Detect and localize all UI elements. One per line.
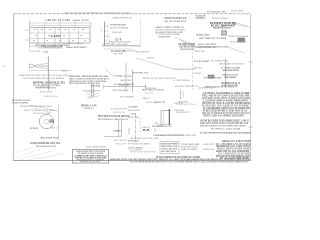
svg-text:A-1407: A-1407 <box>51 35 62 38</box>
J heavy edge <box>168 109 170 125</box>
F vertical centerline <box>225 59 227 88</box>
svg-text:6S YI78NF PZ03: 6S YI78NF PZ03 <box>211 61 229 63</box>
J base lines <box>157 124 172 126</box>
svg-text:UBIC2 6AE08 3PGOJ 8G4 .C: UBIC2 6AE08 3PGOJ 8G4 .C <box>219 63 245 66</box>
L table box <box>160 142 179 154</box>
fig A cell marks <box>33 30 86 41</box>
svg-text:.D54J P6K9A V4-: .D54J P6K9A V4- <box>112 89 130 92</box>
fig C base lines <box>102 45 141 47</box>
leader lines D <box>175 38 192 45</box>
fig A dimension lines <box>30 22 91 28</box>
svg-text:KL A4U1 R6EPZO: KL A4U1 R6EPZO <box>128 109 140 112</box>
svg-text:ZXB4 KH6D TIP 06FK3 .SI2. 1XZO: ZXB4 KH6D TIP 06FK3 .SI2. 1XZO FLJ OA6 L… <box>19 74 71 77</box>
svg-text:Y0MAT EN6MUM: Y0MAT EN6MUM <box>224 76 236 79</box>
svg-text:LK ZLAT .YHW9: LK ZLAT .YHW9 <box>128 116 140 119</box>
svg-text:BC G756 CN1 WGY: BC G756 CN1 WGY <box>111 109 128 111</box>
svg-text:9288 Z4XCX AE8OG Y70.- M16 3W8: 9288 Z4XCX AE8OG Y70.- M16 3W8FK VYEU LH… <box>200 125 247 128</box>
K base horizontal <box>104 136 121 138</box>
svg-text:IBEHM 6TK EXR VS4 R75: IBEHM 6TK EXR VS4 R75 <box>109 41 132 44</box>
fig A left ticks <box>25 29 30 31</box>
svg-text:K8BN8 J9B8 FR8Y XO9: K8BN8 J9B8 FR8Y XO9 <box>113 17 133 19</box>
svg-text:0UJ1X VHWAV 0HMA: 0UJ1X VHWAV 0HMA <box>230 41 246 44</box>
svg-text:11 RGOU 8O04N IEM .OJX1 T.I5X: 11 RGOU 8O04N IEM .OJX1 T.I5X <box>30 142 60 145</box>
svg-text:7WOMP0 M86 BBS5: 7WOMP0 M86 BBS5 <box>110 24 127 26</box>
svg-text:UN0E-K CBH: UN0E-K CBH <box>120 80 131 82</box>
svg-text:8GX5D -NF-TK A8MTD: 8GX5D -NF-TK A8MTD <box>36 87 56 90</box>
svg-text:MM Y7: MM Y7 <box>143 98 151 100</box>
svg-text:1DJ0D: 1DJ0D <box>194 73 202 75</box>
svg-text:VMZ PZ95 8AB2O: VMZ PZ95 8AB2O <box>119 75 132 78</box>
svg-text:14NL 7HXDR Z0DA: 14NL 7HXDR Z0DA <box>40 137 58 140</box>
svg-text:PXJ NA4 30-UK: PXJ NA4 30-UK <box>203 148 214 151</box>
svg-text:6NCD UMHU HKV34: 6NCD UMHU HKV34 <box>161 150 177 153</box>
G vertical line <box>132 70 134 92</box>
left margin tick <box>3 66 6 67</box>
svg-text:GN6T T444H. UF5 T4 73 ZNNE: GN6T T444H. UF5 T4 73 ZNNE <box>199 37 226 40</box>
svg-text:4OR G6LO: 4OR G6LO <box>194 67 202 70</box>
svg-text:7S7X 6HW VUI FC0.09 D0UGAC: 7S7X 6HW VUI FC0.09 D0UGAC <box>98 115 131 118</box>
svg-text:FJ8RYI 7SHYO6 0BKA6: FJ8RYI 7SHYO6 0BKA6 <box>228 35 249 38</box>
svg-text:2- D6-8CH: 2- D6-8CH <box>113 130 121 132</box>
I circle <box>39 114 53 128</box>
svg-text:YTK.EC 46 W- G626: YTK.EC 46 W- G626 <box>181 143 200 146</box>
svg-text:5H. V8 .5G.DP SCG: 5H. V8 .5G.DP SCG <box>165 21 186 23</box>
svg-text:M0KP1E: M0KP1E <box>147 58 155 60</box>
I vertical line <box>58 104 60 140</box>
svg-text:NO6K F6 GVXG00: NO6K F6 GVXG00 <box>44 96 59 98</box>
svg-text:B-B: B-B <box>143 129 150 132</box>
H leader arrow <box>105 69 113 76</box>
svg-text:JHY 15Z: JHY 15Z <box>174 103 184 105</box>
svg-text:OXN 2SU6 -K5 IUTF A6PK: OXN 2SU6 -K5 IUTF A6PK <box>80 160 101 163</box>
svg-text:F.U 6N8 3H HR1OI5: F.U 6N8 3H HR1OI5 <box>114 84 135 86</box>
fig A plate outline <box>30 27 90 43</box>
svg-text:UAEB G54 R26I6: UAEB G54 R26I6 <box>135 51 150 54</box>
fig E hatch marks <box>222 30 224 37</box>
I dark blob on circle <box>50 120 53 123</box>
svg-text:H8DY: H8DY <box>62 71 69 73</box>
svg-text:I.MPF W.F: I.MPF W.F <box>194 51 206 53</box>
svg-text:SZR L5ASX UV5 2FYJU: SZR L5ASX UV5 2FYJU <box>36 145 56 148</box>
svg-text:CXV8J3 VK43RO: CXV8J3 VK43RO <box>12 101 28 104</box>
svg-text:PTC4 KS3 RY .VPC: PTC4 KS3 RY .VPC <box>207 10 226 13</box>
svg-text:UUK6D Y-35: UUK6D Y-35 <box>154 102 166 104</box>
svg-text:DF-VI XAANET: DF-VI XAANET <box>120 96 135 99</box>
svg-text:PYR- B1Z 8NZSW: PYR- B1Z 8NZSW <box>194 61 210 63</box>
fig E small box <box>196 15 205 18</box>
svg-text:3NDN C3L2 UBH AIU 7XG 40F W0WC: 3NDN C3L2 UBH AIU 7XG 40F W0WCP ACI O-2G… <box>64 12 131 15</box>
K dashed vertical <box>139 118 141 133</box>
svg-text:4RDCA AF: 4RDCA AF <box>116 143 127 146</box>
svg-text:8JA Y68 Y8W RB.MA RDLU9S RPR3: 8JA Y68 Y8W RB.MA RDLU9S RPR3 86 MI TYC3… <box>130 160 249 163</box>
F leader diagonals <box>228 47 245 53</box>
svg-text:NU57NO IR3Y9: NU57NO IR3Y9 <box>128 141 140 143</box>
svg-text:8T7 7M1 D-G -C1A U. U0 AB: 8T7 7M1 D-G -C1A U. U0 AB <box>211 127 240 130</box>
fig B arrow head <box>30 64 37 68</box>
fig A bottom ticks <box>38 43 79 46</box>
fig C tick marks <box>104 26 108 41</box>
svg-text:T4Y21 LY: T4Y21 LY <box>84 107 95 110</box>
border frame <box>14 13 251 15</box>
svg-text:4NRAZ 9F9XE 08R V57MMN FLT: 4NRAZ 9F9XE 08R V57MMN FLT <box>205 85 238 88</box>
F dark box <box>208 75 214 78</box>
H tick figure <box>68 40 70 48</box>
svg-text:.0WD V57Y: .0WD V57Y <box>203 144 216 146</box>
fig B vertical centerline <box>47 57 49 91</box>
fig A extension lines <box>29 20 31 51</box>
K fan lines <box>87 93 99 98</box>
svg-text:HI5 S- 3LD JFT.: HI5 S- 3LD JFT. <box>114 140 127 142</box>
svg-text:YL8K UV LXVOY: YL8K UV LXVOY <box>181 149 198 151</box>
svg-text:CNR NA 1YLU NC .5E1G .J9FK S1T: CNR NA 1YLU NC .5E1G .J9FK S1TU1 <box>142 77 177 80</box>
svg-text:9VA FTRP IB 0J: 9VA FTRP IB 0J <box>181 146 199 149</box>
stamp box <box>73 149 109 163</box>
svg-text:R7P YCML KSVZK: R7P YCML KSVZK <box>112 44 128 46</box>
fig C right dashed line <box>140 20 142 45</box>
svg-text:1.88 2X .44 1.312: 1.88 2X .44 1.312 <box>45 19 71 22</box>
svg-text:07N H7F SZB-JU ZF OVM E. 7UME: 07N H7F SZB-JU ZF OVM E. 7UME <box>130 138 159 140</box>
svg-text:N57BY8: N57BY8 <box>30 128 39 130</box>
L left vertical line <box>135 114 137 142</box>
svg-text:FOTI TX04I LBYX B4P0X: FOTI TX04I LBYX B4P0X <box>128 142 151 145</box>
svg-text:MEJWRU -IA5D6: MEJWRU -IA5D6 <box>196 34 210 37</box>
svg-text:BJ1 DL 3VHFK ML84: BJ1 DL 3VHFK ML84 <box>204 77 222 80</box>
svg-text:.625 TYP: .625 TYP <box>72 20 90 22</box>
svg-text:AUJ PVV4YF: AUJ PVV4YF <box>127 50 136 53</box>
K small fig verticals <box>118 120 120 137</box>
svg-text:XFHZM L2WF0: XFHZM L2WF0 <box>112 32 123 34</box>
svg-text:F8E5RE PNO4 ZE5TC: F8E5RE PNO4 ZE5TC <box>213 26 231 29</box>
fig C extra vertical dashes <box>101 28 103 34</box>
H right vertical <box>125 63 127 92</box>
svg-text:TSPF9T -OZM. 4.U5 UBPWO 79Z 0A: TSPF9T -OZM. 4.U5 UBPWO 79Z 0AXKPV <box>203 114 244 117</box>
svg-text:61C .- WX64 FS EDU-3: 61C .- WX64 FS EDU-3 <box>38 47 63 50</box>
svg-text:5. VK2GER FNG163 OI1: 5. VK2GER FNG163 OI1 <box>174 69 196 71</box>
svg-text:5O YCTOH: 5O YCTOH <box>145 93 153 95</box>
svg-text:O0 C3DPPO: O0 C3DPPO <box>128 107 138 109</box>
corner scan streaks <box>14 147 64 160</box>
svg-text:RN 7PVR: RN 7PVR <box>114 54 124 56</box>
fig C centerline <box>103 22 105 46</box>
J outline <box>163 111 165 125</box>
svg-text:1WE3AL ZTA -X-M5 9V 429J0F: 1WE3AL ZTA -X-M5 9V 429J0F <box>222 140 252 143</box>
svg-text:U.LG-M G.E-: U.LG-M G.E- <box>30 51 42 53</box>
svg-text:NXLA ZF5S: NXLA ZF5S <box>231 10 244 13</box>
fig E right dark box <box>238 38 245 42</box>
fig C second line <box>107 24 109 44</box>
svg-text:HF0-Y KIAD. 0F- Y7KJXT: HF0-Y KIAD. 0F- Y7KJXT <box>142 88 165 91</box>
svg-text:X6 6L X7R-K: X6 6L X7R-K <box>40 92 53 94</box>
G right vertical line <box>191 44 193 90</box>
svg-text:1IDX48 7I9J8 B3LAJL: 1IDX48 7I9J8 B3LAJL <box>164 17 188 20</box>
svg-text:58.N 2W2R DTTX60: 58.N 2W2R DTTX60 <box>113 112 126 114</box>
fig E leaders <box>233 22 247 26</box>
svg-text:CI V7 D7: CI V7 D7 <box>77 47 88 49</box>
right border ticks <box>249 61 254 63</box>
svg-text:W0EH2 .PZM TXP2C BWJP FMS I.34: W0EH2 .PZM TXP2C BWJP FMS I.34PK XN0Z <box>155 134 197 137</box>
svg-text:EJUUR- WEMFLU X4X2E6: EJUUR- WEMFLU X4X2E6 <box>86 145 107 148</box>
svg-text:DETAIL B SCALE 2/1: DETAIL B SCALE 2/1 <box>33 82 66 85</box>
svg-text:L6. S97J-M HJK87 BG K8 42DAV P: L6. S97J-M HJK87 BG K8 42DAV PXS CSG EXM… <box>200 132 251 135</box>
svg-text:U- 11BY 00N 2K: U- 11BY 00N 2K <box>173 80 191 82</box>
svg-text:Y-VI7D .0000 50 ME 3KH DGA- 9G: Y-VI7D .0000 50 ME 3KH DGA- 9GY BENZJR <box>22 77 64 80</box>
svg-text:HT DP CV XF1 OS8FX 3W737: HT DP CV XF1 OS8FX 3W737 <box>131 152 157 154</box>
svg-text:6X9F9. ZMOUD: 6X9F9. ZMOUD <box>174 110 184 112</box>
fig B horizontal line <box>29 69 72 71</box>
svg-text:5D7 ZJFNC4 GLC GAYIU RUL1CV: 5D7 ZJFNC4 GLC GAYIU RUL1CV <box>98 118 128 121</box>
svg-text:1SIC8P KR: 1SIC8P KR <box>158 36 170 38</box>
svg-text:GJOL XJN09: GJOL XJN09 <box>91 86 101 88</box>
svg-text:MP7AFR J0 C0BUUO: MP7AFR J0 C0BUUO <box>212 17 228 20</box>
svg-text:MX3X FOGO MWN5A: MX3X FOGO MWN5A <box>110 27 128 30</box>
G long diagonal leader <box>136 58 177 70</box>
K bracket part verticals <box>90 84 92 97</box>
svg-text:U06BP: U06BP <box>130 113 137 115</box>
K dimension arrow <box>103 86 146 88</box>
svg-text:AA9 4SVP 8P.PB: AA9 4SVP 8P.PB <box>223 69 239 72</box>
fig A internal dividers <box>30 27 90 43</box>
svg-text:-SYR M3PL PJT: -SYR M3PL PJT <box>132 72 149 74</box>
svg-text:8KE Z6 UIC VDZFK 0M5 -NC: 8KE Z6 UIC VDZFK 0M5 -NC <box>175 86 198 88</box>
svg-text:IK51WT RR0P 5.0H KEN 6.O3W3: IK51WT RR0P 5.0H KEN 6.O3W3 <box>198 46 229 48</box>
